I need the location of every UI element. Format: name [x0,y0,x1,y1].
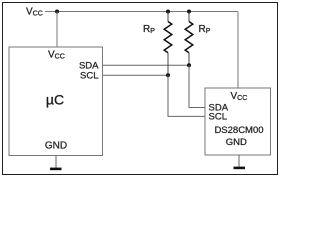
resistor RP (left) [164,12,172,76]
junction dot (right RP to SDA) [187,63,191,67]
svg-text:µC: µC [46,92,64,108]
junction dot (right RP top) [187,10,191,14]
junction dot (left RP to SCL) [166,73,170,77]
wire DS28CM00 VCC [237,12,239,89]
wire SCL [103,74,169,76]
svg-text:SCL: SCL [209,111,227,122]
svg-text:GND: GND [45,141,67,152]
wire SDA to DS28CM00 [189,65,205,107]
wire SCL to DS28CM00 [168,75,205,116]
wire SDA [103,64,190,66]
ground (DS28CM00) [238,155,240,167]
svg-text:GND: GND [226,137,247,148]
ground (µC) [55,156,57,169]
svg-text:DS28CM00: DS28CM00 [214,125,263,136]
microcontroller µC box [9,47,103,156]
junction dot (left RP top) [166,10,170,14]
wire µC VCC [56,12,58,48]
wire VCC rail [45,11,238,13]
svg-text:SCL: SCL [80,71,98,82]
junction dot (µC VCC) [55,10,59,14]
resistor RP (right) [185,12,193,66]
IC DS28CM00 box [205,88,271,155]
